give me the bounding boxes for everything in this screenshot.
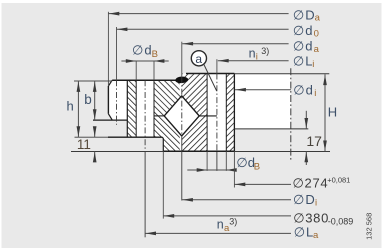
dim 17 line + arrows xyxy=(305,111,307,129)
dim 11 arrows (outside) xyxy=(94,128,96,161)
inner ring hatched band at bore xyxy=(226,74,234,152)
chamfer top-left xyxy=(108,80,112,86)
inner ring split seam at raceway xyxy=(199,115,217,117)
outer ring bolt hole (white) xyxy=(136,80,154,137)
svg-text:n: n xyxy=(217,218,224,232)
svg-text:∅274: ∅274 xyxy=(293,176,329,191)
bottom step chamfer xyxy=(161,137,164,151)
svg-text:a: a xyxy=(314,44,320,55)
dim La leader xyxy=(145,232,291,234)
dim h line + arrows xyxy=(74,80,112,82)
svg-text:B: B xyxy=(254,161,260,172)
roller (diamond) xyxy=(164,96,199,136)
dim Di leader xyxy=(182,199,291,201)
svg-text:i: i xyxy=(314,88,316,99)
top extension line to H xyxy=(234,73,329,75)
dim Da leader xyxy=(108,13,288,15)
dim b line + arrows xyxy=(94,81,96,120)
callout circle a xyxy=(191,51,206,66)
svg-text:∅d: ∅d xyxy=(293,23,314,38)
centre line inner bolt hole (Li extension) xyxy=(216,59,218,73)
outer ring bottom line + h extension xyxy=(75,136,109,138)
dim dB inner: line + arrows xyxy=(187,169,236,171)
outer ring inner-left wall xyxy=(126,80,128,137)
svg-text:∅380: ∅380 xyxy=(293,211,329,226)
flange bottom + housing shoulder line xyxy=(93,119,127,121)
seal gap white strip under seal xyxy=(180,82,182,96)
seal (black blob) xyxy=(175,77,188,84)
dim da leader xyxy=(182,43,288,45)
svg-text:h: h xyxy=(67,99,74,114)
outer ring split seam at raceway xyxy=(154,115,164,117)
svg-text:i: i xyxy=(312,59,314,70)
svg-text:132 568: 132 568 xyxy=(365,213,374,240)
bore white area xyxy=(234,74,290,129)
svg-text:∅D: ∅D xyxy=(293,192,316,207)
svg-text:a: a xyxy=(313,230,319,241)
dim 274 leader xyxy=(234,183,291,185)
outer ring outer wall xyxy=(107,86,109,114)
svg-text:∅d: ∅d xyxy=(236,155,255,170)
svg-text:∅D: ∅D xyxy=(293,7,316,22)
svg-text:∅L: ∅L xyxy=(294,225,315,240)
centre line outer flange hole (d0 extension) xyxy=(116,27,118,80)
svg-text:17: 17 xyxy=(306,133,322,149)
dim di leader xyxy=(235,89,291,91)
svg-text:11: 11 xyxy=(77,137,91,152)
dim 380 extension xyxy=(162,152,164,219)
svg-text:B: B xyxy=(152,49,158,60)
inner ring bolt hole walls xyxy=(206,74,208,152)
svg-text:∅d: ∅d xyxy=(293,39,314,54)
bearing axis centre line xyxy=(290,68,292,160)
svg-text:3): 3) xyxy=(229,217,237,227)
bottom line with extensions xyxy=(71,151,163,153)
dim 380 leader xyxy=(163,215,291,217)
outer ring hatched band xyxy=(127,80,136,137)
dim Li leader xyxy=(218,60,289,62)
svg-text:+0,081: +0,081 xyxy=(327,176,350,185)
inner ring top surface xyxy=(186,73,234,75)
centre section (outer+inner ring around roller) xyxy=(154,74,207,152)
svg-text:a: a xyxy=(195,52,202,66)
outer ring top surface xyxy=(112,79,177,81)
dim 274 extension xyxy=(233,151,235,187)
dim d0 leader xyxy=(117,28,289,30)
svg-text:i: i xyxy=(256,52,258,63)
leader from a xyxy=(204,64,217,91)
dim dB inner: extension lines xyxy=(207,151,226,171)
svg-text:b: b xyxy=(84,92,92,107)
svg-text:i: i xyxy=(315,198,317,209)
inner ring bore wall xyxy=(233,74,235,152)
svg-text:H: H xyxy=(328,105,337,120)
svg-text:∅L: ∅L xyxy=(293,54,314,69)
svg-text:∅d: ∅d xyxy=(132,43,153,58)
roller centre line xyxy=(181,42,183,77)
svg-text:∅d: ∅d xyxy=(293,83,314,98)
svg-text:a: a xyxy=(315,13,321,24)
centre line outer bolt hole xyxy=(144,80,146,152)
outer ring left flange (white bar) xyxy=(108,80,127,120)
inner ring bolt hole (white) xyxy=(207,74,226,152)
chamfer bottom-left xyxy=(108,114,112,120)
svg-text:0: 0 xyxy=(314,28,319,39)
svg-text:-0,089: -0,089 xyxy=(328,217,354,227)
pilot flange top in bore xyxy=(234,128,308,130)
dim dB outer: line + arrows xyxy=(121,60,168,62)
svg-text:3): 3) xyxy=(261,46,269,56)
dim dB outer: extension lines xyxy=(136,61,154,80)
dim H line + arrows xyxy=(324,74,326,151)
seal gap white strip below roller xyxy=(180,136,182,151)
svg-text:n: n xyxy=(249,47,256,61)
outer ring bolt hole walls xyxy=(135,80,137,137)
